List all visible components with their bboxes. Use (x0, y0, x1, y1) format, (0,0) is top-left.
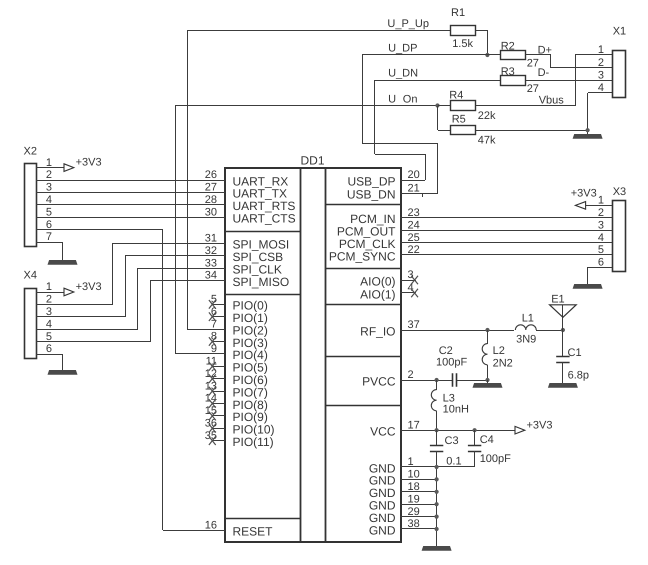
+3V3 power arrow at X4 pin 1 (64, 281, 102, 296)
junction C2/L2/ground (485, 378, 489, 382)
svg-text:VCC: VCC (370, 425, 396, 439)
svg-text:3: 3 (46, 182, 52, 194)
wire R5 output to ground / X1 pin 4 (476, 93, 612, 135)
svg-text:7: 7 (211, 318, 217, 330)
IC DD1 body (225, 168, 401, 542)
svg-text:X3: X3 (613, 186, 626, 198)
svg-text:17: 17 (408, 419, 420, 431)
wire X4 pin 6 to ground (36, 354, 63, 370)
svg-text:U: U (388, 94, 396, 106)
X2 pin 1 wire to +3V3 (36, 167, 64, 169)
svg-text:RESET: RESET (233, 525, 274, 539)
svg-text:30: 30 (205, 206, 217, 218)
svg-text:R4: R4 (449, 89, 463, 101)
junction PVCC/L3 (435, 378, 439, 382)
svg-text:X4: X4 (24, 270, 37, 282)
svg-text:2: 2 (408, 369, 414, 381)
junction VCC/C3 (435, 428, 439, 432)
ground symbol at X1 (573, 134, 603, 139)
svg-text:D+: D+ (538, 44, 552, 56)
ground symbol at X4 pin 6 (48, 370, 78, 375)
ground symbol at C1 (548, 383, 578, 388)
wire X2 pin 3 to UART_TX pin 27 (36, 192, 225, 194)
svg-text:3: 3 (598, 219, 604, 231)
svg-text:PIO(11): PIO(11) (233, 435, 274, 449)
svg-text:1: 1 (598, 44, 604, 56)
svg-text:PCM_SYNC: PCM_SYNC (329, 249, 396, 263)
svg-text:USB_DN: USB_DN (347, 188, 396, 202)
junction U_On/R4/R5 (435, 103, 439, 107)
svg-text:L2: L2 (493, 345, 505, 357)
ground symbol at DD1 GND pins (422, 546, 452, 551)
antenna E1 (550, 293, 577, 330)
svg-text:3N9: 3N9 (516, 334, 536, 346)
svg-text:R1: R1 (451, 7, 465, 19)
capacitor C4 (468, 430, 511, 467)
svg-text:+3V3: +3V3 (76, 157, 102, 169)
svg-text:+3V3: +3V3 (527, 420, 553, 432)
svg-text:GND: GND (369, 523, 396, 537)
svg-text:100pF: 100pF (480, 453, 511, 465)
connector X3 (613, 186, 627, 271)
capacitor C2 (436, 345, 488, 387)
svg-text:DD1: DD1 (300, 153, 324, 167)
DD1 right pin numbers (408, 169, 420, 530)
svg-text:AIO(0): AIO(0) (360, 274, 395, 288)
svg-text:2: 2 (46, 169, 52, 181)
svg-text:7: 7 (46, 231, 52, 243)
net U_DN : wire to USB_DP pin 20 (375, 80, 502, 181)
svg-text:33: 33 (205, 257, 217, 269)
wire PCM_CLK pin 25 to X3 pin 4 (400, 242, 612, 244)
wire GND pin 18 (400, 491, 437, 493)
svg-text:20: 20 (408, 169, 420, 181)
svg-text:E1: E1 (551, 293, 564, 305)
X3 pin numbers (598, 195, 604, 269)
inductor L3 (431, 380, 469, 430)
wire X2 pin 4 to UART_RTS pin 28 (36, 204, 225, 206)
svg-text:RF_IO: RF_IO (360, 324, 395, 338)
connector X1 (613, 25, 627, 97)
wire R1 output down to U_DP net (476, 30, 488, 55)
DD1 AIO no-connect stubs with X marks (400, 276, 418, 298)
svg-text:37: 37 (408, 319, 420, 331)
junction RF_IO/L2 (485, 328, 489, 332)
svg-text:2N2: 2N2 (493, 358, 513, 370)
svg-text:19: 19 (408, 493, 420, 505)
svg-text:24: 24 (408, 219, 420, 231)
net U_DP : wire to USB_DN pin 21 (362, 55, 500, 198)
junction R1/U_DP (485, 53, 489, 57)
svg-text:34: 34 (205, 270, 217, 282)
svg-text:21: 21 (408, 182, 420, 194)
resistor R2 (501, 40, 539, 69)
+3V3 power arrow at X2 pin 1 (64, 157, 102, 172)
svg-text:SPI_MISO: SPI_MISO (233, 275, 290, 289)
net U_P_Up : wire from R1 down to PIO(2) pin 7 (187, 30, 450, 330)
X3 pin 1 wire to +3V3 (586, 205, 612, 207)
svg-text:C1: C1 (568, 347, 582, 359)
svg-text:U_DP: U_DP (388, 43, 417, 55)
svg-text:5: 5 (46, 206, 52, 218)
resistor R3 (501, 66, 539, 95)
wire GND pin 29 (400, 516, 437, 518)
ground symbol at L2/C2 (473, 380, 503, 388)
wire RF_IO pin 37 (400, 330, 514, 332)
svg-text:+3V3: +3V3 (571, 188, 597, 200)
svg-text:26: 26 (205, 169, 217, 181)
svg-text:+3V3: +3V3 (76, 281, 102, 293)
svg-text:1: 1 (598, 195, 604, 207)
svg-text:6.8p: 6.8p (568, 369, 589, 381)
capacitor C1 (556, 330, 589, 383)
capacitor C3 (430, 430, 462, 467)
wire X2 pin 5 to UART_CTS pin 30 (36, 217, 225, 219)
svg-text:3: 3 (408, 269, 414, 281)
svg-text:22k: 22k (478, 110, 496, 122)
wire X4 pin 2 to SPI_MOSI pin 31 (36, 243, 225, 305)
svg-text:10: 10 (408, 469, 420, 481)
junction GND rail pin 1 (435, 465, 439, 469)
svg-text:U_DN: U_DN (388, 68, 418, 80)
wire PCM_OUT pin 24 to X3 pin 3 (400, 230, 612, 232)
X1 pin numbers (598, 44, 604, 94)
wire R3 output to X1 pin 3 (D-) (526, 80, 612, 82)
inductor L1 (515, 312, 536, 345)
wire GND pin 10 (400, 479, 437, 481)
wire X2 pin 7 to ground (36, 242, 63, 260)
svg-text:L3: L3 (443, 392, 455, 404)
svg-text:100pF: 100pF (436, 356, 467, 368)
connector X2 (24, 146, 37, 247)
resistor R5 (438, 106, 497, 147)
svg-text:0.1: 0.1 (446, 455, 461, 467)
+3V3 power arrow at X3 pin 1 (571, 188, 597, 210)
svg-text:X2: X2 (24, 146, 37, 158)
svg-text:6: 6 (598, 257, 604, 269)
svg-text:31: 31 (205, 233, 217, 245)
svg-text:USB_DP: USB_DP (347, 174, 395, 188)
junction VCC/C4 (473, 428, 477, 432)
X2 pin numbers (46, 157, 52, 243)
svg-text:U_P_Up: U_P_Up (387, 18, 429, 30)
wire X4 pin 3 to SPI_CSB pin 32 (36, 256, 225, 318)
svg-text:UART_CTS: UART_CTS (233, 212, 296, 226)
wire VCC pin 17 to +3V3 (400, 430, 515, 432)
svg-text:6: 6 (46, 343, 52, 355)
wire L1 to antenna node (536, 330, 563, 332)
wire PCM_IN pin 23 to X3 pin 2 (400, 217, 612, 219)
wire X2 pin 6 to RESET pin 16 (36, 230, 225, 531)
svg-text:Vbus: Vbus (539, 95, 565, 107)
inductor L2 (482, 330, 513, 380)
wire PVCC pin 2 (400, 380, 452, 382)
svg-text:1.5k: 1.5k (452, 38, 473, 50)
svg-text:47k: 47k (478, 135, 496, 147)
wire GND pin 1 rail (400, 467, 475, 547)
DD1 left column pin-name labels (233, 174, 296, 538)
net U_On : wire from PIO(4) pin 9 up to R4 (175, 106, 438, 355)
+3V3 power arrow at VCC (515, 420, 553, 434)
svg-text:On: On (403, 94, 418, 106)
svg-text:L1: L1 (522, 312, 534, 324)
resistor R4 (438, 89, 496, 122)
svg-text:10nH: 10nH (443, 404, 469, 416)
svg-text:2: 2 (46, 294, 52, 306)
svg-text:D-: D- (538, 67, 550, 79)
svg-text:C3: C3 (445, 435, 459, 447)
wire X4 pin 4 to SPI_CLK pin 33 (36, 268, 225, 330)
DD1 PIO no-connect stubs with X marks (209, 300, 225, 445)
svg-text:X1: X1 (613, 25, 626, 37)
ground symbol at X2 pin 7 (48, 260, 78, 265)
connector X4 (24, 270, 37, 359)
X4 pin 1 wire to +3V3 (36, 292, 64, 294)
svg-text:3: 3 (598, 70, 604, 82)
resistor R1 (451, 7, 476, 50)
svg-text:27: 27 (205, 182, 217, 194)
svg-text:C4: C4 (480, 434, 494, 446)
wire X3 pin 6 to ground (588, 267, 613, 284)
svg-text:AIO(1): AIO(1) (360, 287, 395, 301)
svg-text:1: 1 (46, 281, 52, 293)
svg-text:16: 16 (205, 520, 217, 532)
wire GND pin 19 (400, 504, 437, 506)
wire R4 output (Vbus) to X1 pin 1 (476, 55, 612, 107)
ground symbol at X3 pin 6 (573, 284, 603, 289)
wire PCM_SYNC pin 22 to X3 pin 5 (400, 254, 612, 256)
DD1 left pin numbers (205, 169, 217, 531)
svg-text:4: 4 (46, 318, 52, 330)
svg-text:C2: C2 (439, 345, 453, 357)
wire GND pin 38 (400, 528, 437, 530)
wire X4 pin 5 to SPI_MISO pin 34 (36, 280, 225, 342)
svg-text:R3: R3 (501, 66, 515, 78)
junction R5/X1 pin4/ground (586, 128, 590, 132)
wire R2 output to X1 pin 2 (D+) (526, 55, 612, 69)
svg-text:R5: R5 (452, 113, 466, 125)
svg-text:PVCC: PVCC (362, 374, 396, 388)
junction L1/C1/E1 (561, 328, 565, 332)
svg-text:27: 27 (527, 83, 539, 95)
svg-text:R2: R2 (501, 40, 515, 52)
X4 pin numbers (46, 281, 52, 355)
wire X2 pin 2 to UART_RX pin 26 (36, 180, 225, 182)
svg-text:4: 4 (598, 82, 604, 94)
svg-text:2: 2 (598, 57, 604, 69)
DD1 right column pin-name labels (329, 174, 396, 537)
